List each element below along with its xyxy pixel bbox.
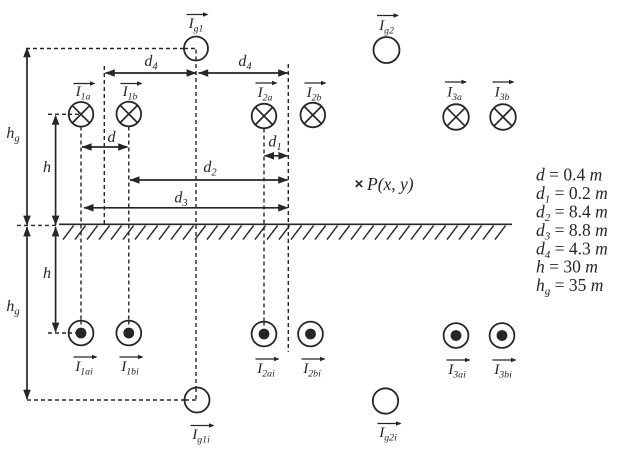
label d4 (right) (238, 53, 252, 73)
wire: dashed height reference from h to image conductor I1ai (48, 332, 81, 334)
wire: dashed vertical through conductor I1b (128, 127, 130, 321)
field point P(x,y) (356, 174, 414, 194)
svg-text:d: d (108, 129, 117, 146)
svg-text:hg: hg (6, 298, 19, 318)
image conductor I3bi (490, 323, 515, 348)
svg-text:h = 30 m: h = 30 m (536, 257, 598, 277)
label hg (upper) (6, 125, 19, 145)
label I3bi (493, 358, 517, 381)
ground wire Ig1 (184, 37, 208, 61)
wire: dashed height reference from h to conductor I1a (48, 113, 81, 115)
label I1bi (120, 355, 144, 378)
wire: dashed tick into I1ai center (68, 321, 81, 334)
svg-text:I2a: I2a (257, 84, 273, 104)
wire: dashed vertical through conductor I1a (80, 127, 82, 321)
conductor I3a (443, 104, 469, 130)
label hg (lower) (6, 298, 19, 318)
svg-text:hg = 35 m: hg = 35 m (536, 275, 603, 298)
svg-text:d2: d2 (203, 159, 217, 179)
dimension line d (82, 143, 129, 151)
svg-text:P(x, y): P(x, y) (366, 174, 414, 194)
wire: dashed height reference from hg to ground wire Ig1 (26, 48, 196, 50)
wire: dashed ground-level reference at left (17, 224, 58, 226)
svg-text:I3ai: I3ai (447, 361, 466, 381)
svg-text:Ig2: Ig2 (378, 17, 394, 37)
image conductor I1bi (116, 321, 141, 346)
dimension line d3 (84, 204, 289, 212)
dimension line hg (below ground) (23, 226, 31, 399)
wire: dashed vertical midline of circuit 1 (x=104) (103, 66, 105, 224)
svg-text:h: h (43, 159, 51, 176)
ground wire Ig2 (374, 37, 400, 63)
svg-text:d4: d4 (144, 53, 158, 73)
conductor I1b (117, 102, 142, 127)
wire: dashed vertical centerline through Ig1 and Ig1i (195, 50, 197, 400)
label d (108, 129, 117, 146)
label Ig1 (187, 12, 209, 34)
legend: d3 value (536, 220, 608, 243)
dimension line hg (above ground) (23, 47, 31, 225)
label Ig2 (377, 13, 399, 36)
svg-text:I1a: I1a (75, 83, 91, 103)
wire: dashed vertical through conductor I2a (263, 129, 265, 322)
dimension line d4 (left of Ig1) (105, 69, 197, 77)
image conductor I2ai (252, 322, 277, 347)
wire: dashed tick into I1bi top (128, 321, 130, 328)
wire: dashed tick into Ig1 center (184, 49, 198, 61)
svg-text:I2ai: I2ai (256, 360, 275, 380)
image conductor I2bi (298, 322, 323, 347)
label I2b (305, 81, 327, 104)
legend: d1 value (536, 183, 608, 206)
dimension line d1 (264, 152, 288, 160)
svg-text:I1bi: I1bi (120, 358, 139, 378)
conductor I2b (301, 103, 326, 128)
label I1a (74, 81, 96, 102)
svg-text:I3bi: I3bi (493, 361, 512, 381)
svg-text:I2bi: I2bi (302, 360, 321, 380)
svg-text:Ig1i: Ig1i (191, 426, 210, 446)
label I2a (256, 81, 278, 104)
legend: h value (536, 257, 598, 277)
label I2ai (256, 357, 280, 380)
label I3a (445, 80, 467, 103)
image ground wire Ig1i (185, 388, 210, 413)
svg-text:I3b: I3b (494, 84, 510, 104)
legend: d4 value (536, 239, 608, 262)
svg-text:Ig1: Ig1 (188, 15, 204, 35)
svg-text:I3a: I3a (446, 84, 462, 104)
label I2bi (302, 357, 326, 380)
legend: d2 value (536, 202, 608, 225)
svg-text:h: h (43, 265, 51, 282)
image conductor I1ai (69, 321, 94, 346)
wire: dashed tick into I2ai top (263, 322, 265, 329)
dimension line d4 (right of Ig1) (198, 69, 288, 77)
legend: hg value (536, 275, 603, 298)
wire: dashed vertical reference line (x=288) (287, 64, 289, 352)
conductor I1a (69, 102, 94, 127)
label I1ai (74, 355, 98, 378)
conductor I3b (490, 104, 516, 130)
label I3ai (447, 358, 471, 381)
conductor I2a (252, 104, 277, 129)
dimension line h (below ground) (52, 226, 60, 332)
label Ig1i (191, 423, 215, 445)
ground hatching (63, 226, 506, 240)
label d2 (203, 159, 217, 179)
label d3 (174, 190, 187, 210)
label h (lower) (43, 265, 51, 282)
image conductor I3ai (444, 323, 469, 348)
legend: d value (536, 165, 602, 185)
dimension line d2 (130, 176, 289, 184)
label d4 (left) (144, 53, 158, 73)
svg-text:Ig2i: Ig2i (378, 424, 397, 444)
ground surface line (59, 223, 512, 225)
svg-text:hg: hg (6, 125, 19, 145)
label h (upper) (43, 159, 51, 176)
label Ig2i (378, 421, 402, 443)
label d1 (268, 134, 281, 154)
svg-text:d4: d4 (238, 53, 252, 73)
wire: dashed tick into Ig1i center (185, 388, 198, 401)
svg-text:I1ai: I1ai (74, 358, 93, 378)
wire: dashed height reference from hg to image ground wire Ig1i (27, 399, 197, 401)
dimension line h (above ground) (52, 115, 60, 226)
label I1b (121, 81, 143, 102)
svg-text:I1b: I1b (122, 83, 138, 103)
svg-text:I2b: I2b (306, 84, 322, 104)
svg-text:d1: d1 (268, 134, 281, 154)
svg-text:d3: d3 (174, 190, 187, 210)
wire: dashed tick into I1a center (68, 113, 82, 115)
svg-text:d = 0.4 m: d = 0.4 m (536, 165, 602, 185)
image ground wire Ig2i (373, 388, 398, 413)
label I3b (493, 80, 515, 103)
